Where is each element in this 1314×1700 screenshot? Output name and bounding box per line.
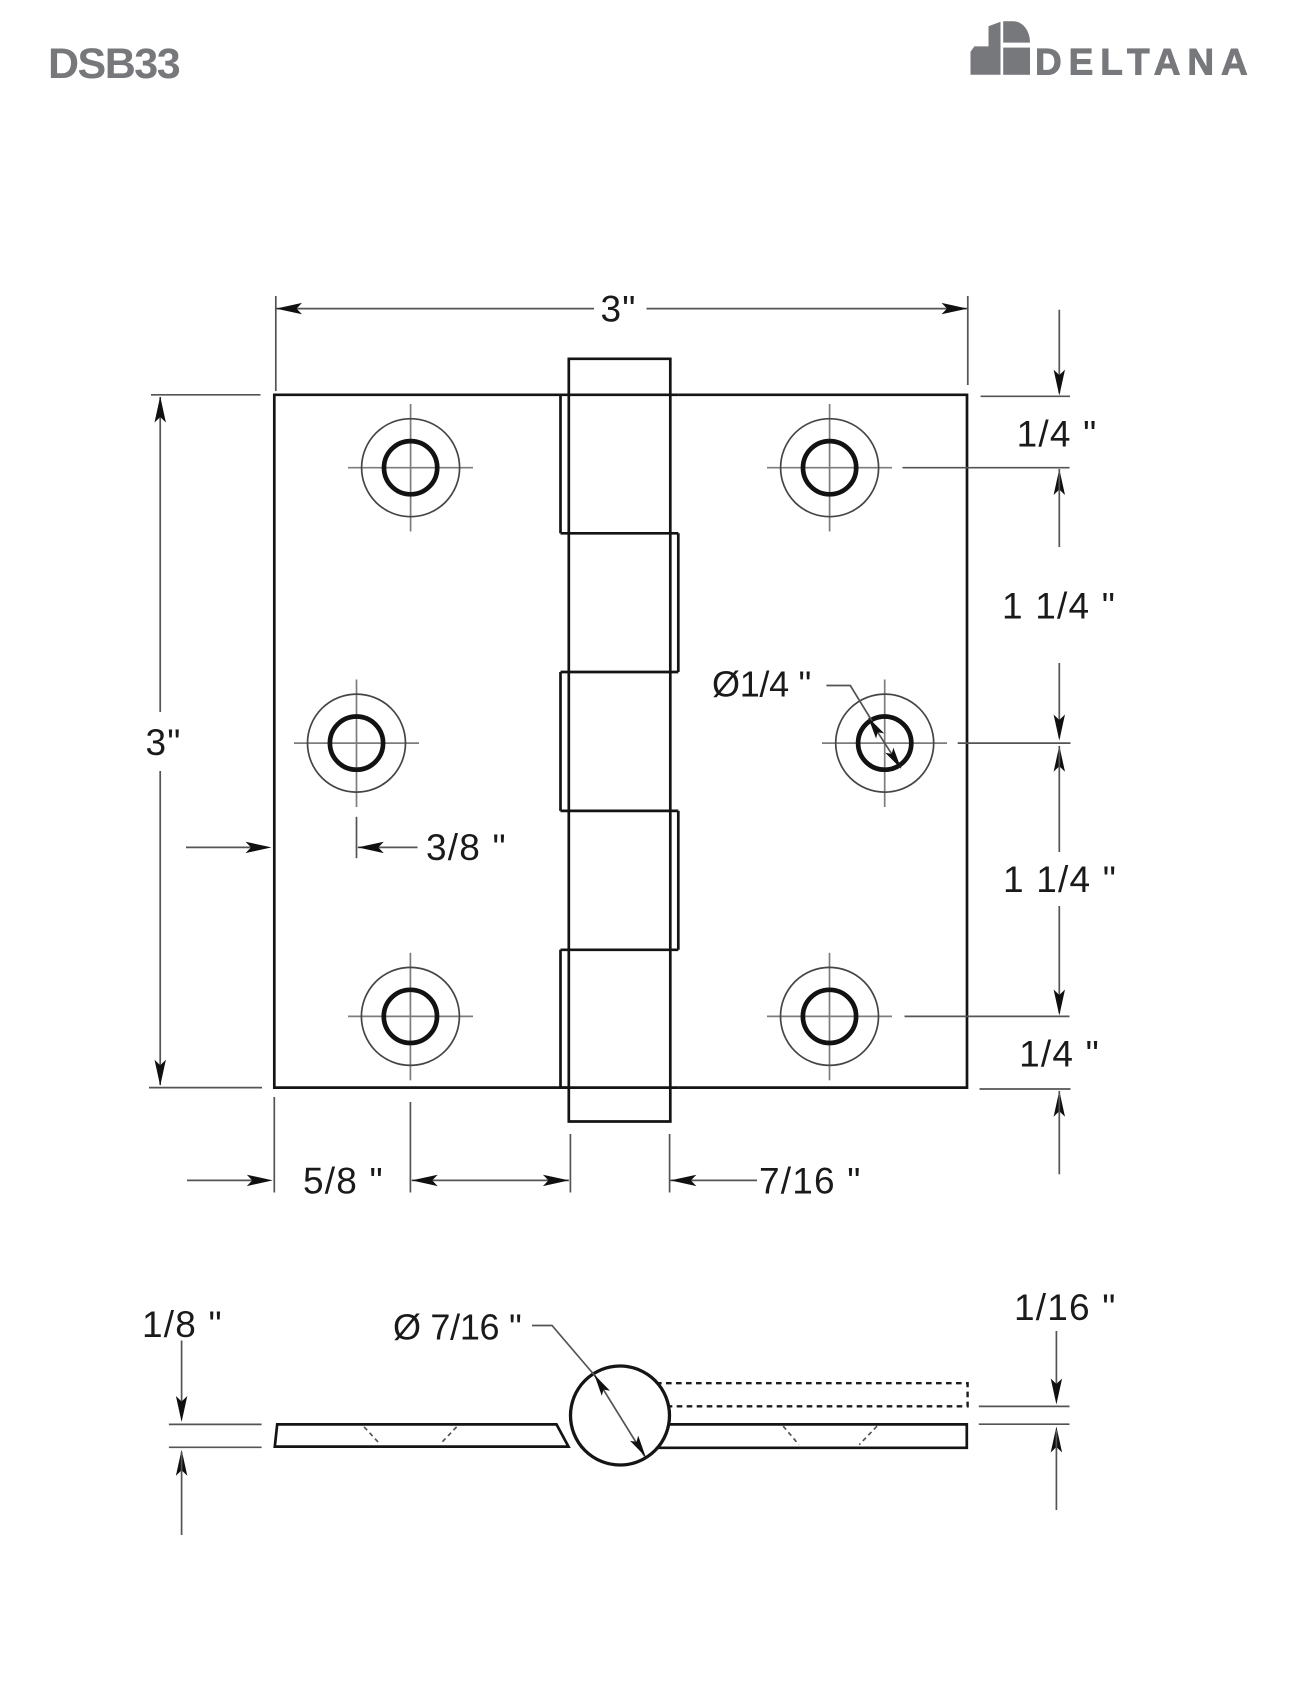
- dimension 3 inch top extension left: [275, 296, 277, 391]
- dimension 3 inch left extension top: [151, 394, 261, 396]
- knuckle outer line left segment 2: [559, 672, 562, 811]
- side view left flap chamfer mark 1: [364, 1427, 380, 1444]
- dimension 3 inch left extension bottom: [149, 1087, 262, 1089]
- dimension 3/8 inch arrow toward leaf edge: [186, 846, 266, 848]
- bottom dimensions extension barrel right: [669, 1134, 671, 1193]
- svg-text:3/8 ": 3/8 ": [426, 827, 507, 868]
- screw hole top-right inner circle: [803, 441, 856, 494]
- dimension 1 1/4 inch upper: [1054, 469, 1065, 495]
- label dia 1/4 inch diameter arrow: [869, 718, 901, 768]
- svg-text:Ø 7/16 ": Ø 7/16 ": [393, 1307, 521, 1348]
- dimension 3 inch top extension right: [967, 296, 969, 385]
- dimension 7/16 inch arrow: [670, 1179, 757, 1181]
- screw hole bottom-right crosshair: [767, 1015, 892, 1017]
- knuckle divider 2: [561, 671, 679, 674]
- dimension 1 1/4 inch lower: [1054, 746, 1065, 772]
- screw hole top-right crosshair: [767, 467, 892, 469]
- dimension 1/8 inch upper arrow: [181, 1341, 183, 1419]
- label dia 1/4 inch leader: [826, 686, 872, 722]
- dimension 1/8 inch lower arrow: [176, 1450, 187, 1476]
- barrel bottom cap edge: [568, 1120, 672, 1123]
- svg-text:3": 3": [600, 289, 636, 330]
- dimension 3 inch top arrowheads: [276, 303, 302, 314]
- Deltana logo mark left piece: [971, 22, 1001, 75]
- label dia 7/16 inch leader: [532, 1326, 596, 1378]
- hinge leaf right outline: [678, 395, 967, 1088]
- svg-text:1/16 ": 1/16 ": [1014, 1287, 1117, 1328]
- bottom dimensions extension hole center: [409, 1102, 411, 1193]
- side view dashed open leaf: [646, 1383, 968, 1406]
- svg-text:5/8 ": 5/8 ": [303, 1161, 384, 1202]
- barrel top cap edge: [568, 357, 672, 360]
- svg-text:3": 3": [145, 722, 181, 763]
- dimension 3/8 inch arrow from hole center: [358, 846, 418, 848]
- screw hole mid-left crosshair: [294, 742, 419, 744]
- hole reference line top-right: [903, 467, 1070, 469]
- knuckle outer line right segment 1: [677, 533, 680, 672]
- svg-text:Ø1/4 ": Ø1/4 ": [712, 664, 811, 705]
- dimension 1/8 inch extension lines: [169, 1423, 262, 1425]
- svg-text:1/8 ": 1/8 ": [142, 1304, 223, 1345]
- side view right flap: [640, 1424, 967, 1447]
- screw hole bottom-right inner circle: [803, 990, 856, 1043]
- side view left flap chamfer mark 2: [440, 1427, 456, 1444]
- svg-text:DELTANA: DELTANA: [1035, 42, 1255, 83]
- screw hole bottom-left crosshair: [348, 1015, 473, 1017]
- screw hole top-left outer circle: [362, 419, 460, 517]
- svg-text:1 1/4 ": 1 1/4 ": [1002, 586, 1116, 627]
- screw hole top-right outer circle: [781, 419, 879, 517]
- barrel bottom edge across: [561, 1086, 679, 1089]
- dimension 3 inch top line: [276, 308, 594, 310]
- screw hole top-left crosshair: [348, 467, 473, 469]
- knuckle outer line left segment 1: [559, 395, 562, 534]
- side view left flap: [275, 1424, 569, 1446]
- right column tick leaf top: [981, 395, 1070, 397]
- svg-text:1/4 ": 1/4 ": [1019, 1033, 1100, 1074]
- dimension 3 inch left line: [159, 397, 161, 712]
- right column tick leaf bottom: [980, 1088, 1071, 1090]
- dimension 3 inch left arrowheads: [155, 397, 166, 423]
- dimension 1/16 inch extension lines: [979, 1405, 1070, 1407]
- side view right flap chamfer mark 2: [859, 1426, 877, 1445]
- screw hole bottom-right outer circle: [781, 967, 879, 1065]
- screw hole mid-left outer circle: [308, 694, 406, 792]
- side view right flap chamfer mark 1: [783, 1426, 799, 1445]
- screw hole mid-left inner circle: [330, 717, 383, 770]
- knuckle outer line left segment 3: [559, 950, 562, 1088]
- svg-text:DSB33: DSB33: [48, 40, 180, 88]
- Deltana logo mark right piece: [1003, 21, 1030, 42]
- knuckle outer line right segment 2: [677, 811, 680, 950]
- screw hole top-left inner circle: [384, 441, 437, 494]
- screw hole mid-right outer circle: [836, 694, 934, 792]
- bottom dimensions extension leaf left edge: [273, 1097, 275, 1193]
- dimension 1/16 inch lower arrow: [1051, 1427, 1062, 1453]
- svg-text:1/4 ": 1/4 ": [1017, 414, 1098, 455]
- dimension line hole to barrel with outward arrows: [412, 1179, 569, 1181]
- hole reference line mid-right: [958, 742, 1071, 744]
- barrel top edge across: [561, 393, 679, 396]
- knuckle divider 3: [561, 810, 679, 813]
- svg-text:1 1/4 ": 1 1/4 ": [1003, 859, 1117, 900]
- knuckle divider 1: [561, 532, 679, 535]
- svg-text:7/16 ": 7/16 ": [759, 1161, 862, 1202]
- bottom dimensions extension barrel left: [569, 1134, 571, 1193]
- knuckle divider 4: [561, 948, 679, 951]
- side view barrel circle: [571, 1366, 670, 1465]
- barrel left vertical: [567, 359, 570, 1122]
- dimension 3/8 inch extension below hole: [356, 817, 358, 858]
- screw hole bottom-left outer circle: [361, 967, 459, 1065]
- Deltana logo mark right lower block: [1003, 48, 1030, 75]
- screw hole mid-right crosshair: [822, 742, 947, 744]
- label dia 7/16 inch diameter arrow: [595, 1376, 645, 1457]
- hinge leaf left outline: [274, 395, 569, 1088]
- screw hole bottom-left inner circle: [384, 990, 437, 1043]
- hole reference line bottom-right: [905, 1015, 1070, 1017]
- screw hole mid-right inner circle: [858, 717, 911, 770]
- dimension 1/4 inch upper line and arrows: [1058, 310, 1060, 393]
- barrel right vertical: [669, 359, 672, 1122]
- dimension 1/16 inch upper arrow: [1055, 1331, 1057, 1400]
- dimension 5/8 inch arrow toward leaf edge: [187, 1179, 267, 1181]
